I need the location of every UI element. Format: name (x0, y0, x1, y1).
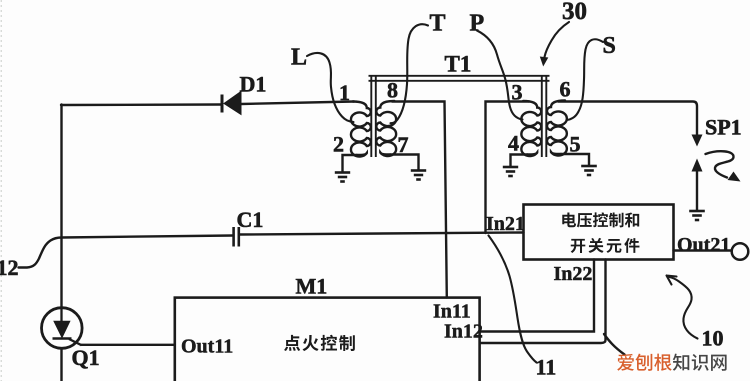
wire pin 8 to In11 (392, 102, 447, 298)
svg-text:SP1: SP1 (705, 115, 742, 140)
pointer 10 arrowhead (667, 276, 677, 285)
ground pin 4 (503, 167, 518, 176)
svg-text:In21: In21 (486, 213, 525, 235)
ground pin 5 (581, 166, 597, 175)
pointer P (477, 31, 523, 120)
pointer S (567, 39, 604, 120)
winding L pins 1-2 (351, 102, 371, 157)
svg-text:P: P (470, 11, 485, 37)
svg-text:10: 10 (702, 326, 724, 351)
svg-text:8: 8 (387, 78, 398, 103)
text 电压控制和 (562, 212, 576, 227)
pointer 30 arrowhead (540, 57, 549, 67)
watermark 知识网 (673, 354, 689, 371)
svg-text:12: 12 (0, 255, 19, 280)
svg-text:D1: D1 (240, 72, 267, 97)
svg-text:L: L (291, 45, 307, 71)
pointer T (391, 24, 429, 123)
wire In22 to In12 (480, 260, 595, 332)
block M1 ignition control (175, 298, 480, 381)
wire Q1 gate to Out11 (81, 344, 175, 346)
svg-text:In22: In22 (554, 263, 593, 285)
ground pin 7 (411, 171, 426, 180)
svg-text:T1: T1 (445, 52, 472, 77)
pointer 30 arrow (545, 22, 570, 57)
pointer 12 (19, 238, 62, 268)
hook at lower corner (604, 334, 625, 355)
diode D1 (222, 92, 241, 115)
terminal Out21 (732, 243, 749, 260)
ground SP1 (689, 211, 705, 220)
pointer L (307, 53, 354, 122)
block U1 voltage control and switching element (524, 205, 674, 260)
wire pin 6 to spark gap SP1 (558, 102, 697, 137)
winding T pins 8-7 (376, 101, 396, 156)
wire D1 anode to pin 1 (241, 102, 354, 105)
svg-text:6: 6 (560, 77, 571, 102)
svg-text:Out21: Out21 (677, 234, 730, 256)
wire pin5 to ground (561, 154, 589, 166)
spark gap SP1 lower electrode (692, 159, 703, 172)
spark gap SP1 upper electrode (692, 135, 703, 147)
pointer 11 (489, 236, 537, 363)
svg-text:S: S (603, 33, 616, 59)
svg-text:M1: M1 (296, 274, 328, 299)
svg-text:1: 1 (339, 80, 350, 105)
svg-text:C1: C1 (237, 207, 264, 232)
wire C1 to In21 (239, 233, 524, 235)
winding S pins 6-5 (547, 101, 567, 156)
svg-text:2: 2 (333, 132, 344, 157)
wire SP1 to ground (696, 171, 698, 211)
thyristor Q1 (42, 308, 83, 349)
text 点火控制 (284, 335, 300, 351)
watermark 爱刨根 (617, 354, 634, 371)
svg-text:11: 11 (536, 355, 557, 380)
svg-text:5: 5 (570, 132, 581, 157)
wire pin4 to ground (511, 155, 528, 167)
pointer 10 arrow (670, 277, 698, 339)
ground pin 2 (335, 173, 350, 182)
svg-text:30: 30 (562, 0, 587, 25)
wire Q1 cathode down (60, 348, 62, 381)
spark arrowhead (728, 172, 741, 182)
svg-text:T: T (430, 11, 446, 37)
wire pin7 to ground (390, 155, 418, 171)
svg-text:In12: In12 (444, 321, 483, 343)
wire pin2 to ground (343, 155, 357, 172)
wire left vertical bus (node 12 to Q1) (60, 105, 62, 308)
scan edge artifact (0, 0, 2, 381)
spark arrow (706, 151, 734, 177)
svg-text:7: 7 (398, 132, 409, 157)
wire node 12 left segment (62, 236, 234, 238)
wire pin 3 to node In21 (486, 102, 530, 234)
transformer T1 core (item 30) (369, 76, 550, 157)
svg-text:Q1: Q1 (72, 345, 100, 370)
wire D1 cathode side (61, 103, 221, 106)
svg-text:4: 4 (508, 131, 519, 156)
winding P pins 3-4 (521, 101, 541, 156)
svg-text:In11: In11 (433, 301, 471, 323)
svg-text:Out11: Out11 (181, 336, 233, 358)
capacitor C1 (234, 227, 239, 247)
wire lower return (481, 260, 606, 344)
text 开关元件 (571, 239, 586, 253)
wire Out21 (674, 249, 732, 251)
